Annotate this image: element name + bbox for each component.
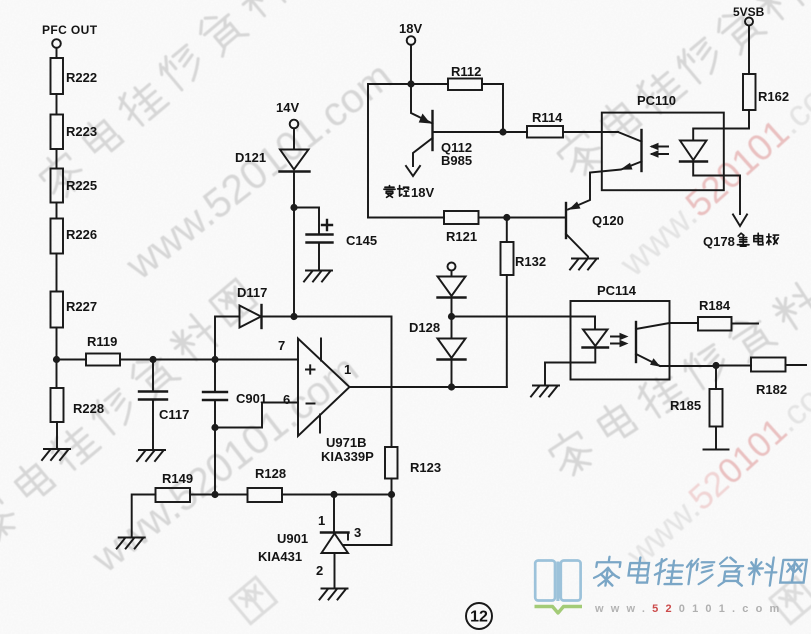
svg-text:D128: D128 — [409, 320, 440, 335]
svg-text:B985: B985 — [441, 153, 472, 168]
svg-text:Q178: Q178 — [703, 234, 735, 249]
svg-text:R222: R222 — [66, 70, 97, 85]
svg-text:PC110: PC110 — [637, 93, 676, 108]
svg-text:18V: 18V — [411, 185, 434, 200]
svg-text:1: 1 — [344, 362, 351, 377]
svg-text:R123: R123 — [410, 460, 441, 475]
svg-text:R128: R128 — [255, 466, 286, 481]
svg-text:R182: R182 — [756, 382, 787, 397]
svg-text:R223: R223 — [66, 124, 97, 139]
svg-text:1: 1 — [318, 513, 325, 528]
svg-text:2: 2 — [316, 563, 323, 578]
svg-text:www.520101.com: www.520101.com — [594, 603, 787, 615]
svg-text:D121: D121 — [235, 150, 266, 165]
svg-text:PFC OUT: PFC OUT — [42, 23, 98, 37]
svg-text:R228: R228 — [73, 401, 104, 416]
svg-text:R149: R149 — [162, 471, 193, 486]
svg-text:U971B: U971B — [326, 435, 366, 450]
svg-text:Q120: Q120 — [592, 213, 624, 228]
svg-text:D117: D117 — [237, 285, 267, 300]
svg-text:R185: R185 — [670, 398, 701, 413]
svg-text:18V: 18V — [399, 21, 422, 36]
svg-text:R225: R225 — [66, 178, 97, 193]
svg-text:R112: R112 — [451, 64, 481, 79]
svg-text:3: 3 — [354, 525, 361, 540]
svg-text:14V: 14V — [276, 100, 299, 115]
svg-text:C145: C145 — [346, 233, 377, 248]
svg-text:R114: R114 — [532, 110, 563, 125]
svg-text:C901: C901 — [236, 391, 267, 406]
svg-text:C117: C117 — [159, 407, 189, 422]
svg-text:R184: R184 — [699, 298, 731, 313]
svg-text:5VSB: 5VSB — [733, 5, 765, 19]
svg-text:R121: R121 — [446, 229, 477, 244]
svg-text:6: 6 — [283, 392, 290, 407]
svg-text:PC114: PC114 — [597, 283, 637, 298]
svg-text:U901: U901 — [277, 531, 308, 546]
svg-text:R162: R162 — [758, 89, 789, 104]
svg-text:KIA339P: KIA339P — [321, 449, 374, 464]
svg-text:R132: R132 — [515, 254, 546, 269]
svg-text:R227: R227 — [66, 299, 97, 314]
svg-text:KIA431: KIA431 — [258, 549, 302, 564]
svg-text:12: 12 — [470, 609, 488, 626]
svg-text:7: 7 — [278, 338, 285, 353]
svg-text:R119: R119 — [87, 334, 117, 349]
svg-text:R226: R226 — [66, 227, 97, 242]
